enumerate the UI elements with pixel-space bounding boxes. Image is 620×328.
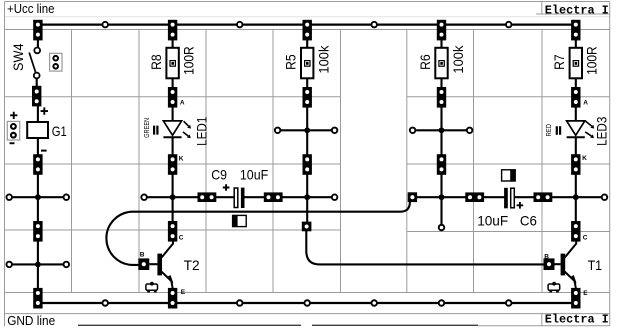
svg-text:K: K	[582, 155, 587, 162]
svg-text:Electra I: Electra I	[545, 3, 609, 17]
LED LED3	[567, 121, 595, 138]
marker C6 body	[502, 170, 516, 181]
wire C9 row y197	[148, 196, 332, 198]
package icon T1	[548, 282, 560, 293]
wire column4 segments	[440, 38, 442, 224]
wire C6 row y197	[417, 196, 601, 198]
pad C9 left link	[198, 192, 217, 202]
node hole right y264	[64, 262, 70, 268]
pads column3	[302, 20, 312, 232]
svg-text:A: A	[180, 100, 185, 107]
marker C9 body	[233, 215, 247, 226]
svg-text:LED3: LED3	[594, 116, 610, 145]
pad T2 base	[138, 258, 149, 270]
svg-text:Electra I: Electra I	[545, 312, 609, 326]
spare pad near G1	[7, 121, 19, 140]
wire T1 base run	[306, 230, 544, 264]
svg-text:R6: R6	[417, 54, 433, 70]
svg-text:GREEN: GREEN	[142, 118, 151, 138]
node hole y130 left of col3	[275, 128, 281, 134]
svg-text:SW4: SW4	[10, 43, 26, 71]
junction col5-y197	[573, 194, 579, 200]
bottom window edge segments	[78, 324, 478, 326]
svg-text:100R: 100R	[181, 46, 197, 75]
pad T1 base	[544, 258, 555, 270]
wire column3 segments	[306, 38, 308, 222]
pad R6 link y197	[408, 192, 417, 202]
polarity - (G1 wire)	[41, 150, 47, 152]
svg-text:B: B	[140, 252, 145, 259]
pad C6 left link	[465, 192, 484, 202]
node hole GND 2	[237, 300, 243, 306]
junction col4-y197	[439, 194, 445, 200]
resistor R8	[166, 48, 178, 79]
polarity + (C6)	[517, 202, 524, 209]
junction col3-y197	[304, 194, 310, 200]
wire +Ucc rail	[38, 24, 576, 26]
node hole left y264	[6, 262, 12, 268]
polarity + (G1 wire)	[41, 107, 48, 114]
junction col4-y130	[439, 127, 445, 133]
pads column2	[168, 20, 177, 309]
svg-text:LED1: LED1	[193, 116, 209, 145]
battery G1	[27, 122, 48, 138]
package icon T2	[146, 282, 158, 293]
polarity + (C9)	[223, 184, 230, 191]
node hole GND 3	[304, 300, 310, 306]
resistor R6	[435, 48, 447, 79]
board frame and grid	[5, 16, 610, 18]
wire GND rail	[38, 302, 576, 304]
svg-text:100k: 100k	[316, 45, 332, 74]
node hole y130 left of col4	[410, 128, 416, 134]
wire node row col1 y197	[13, 196, 63, 198]
junction col3-y130	[304, 127, 310, 133]
node hole y130 right of col3	[332, 128, 338, 134]
capacitor C9	[234, 188, 244, 208]
node hole Ucc 3	[371, 22, 377, 28]
node hole y197 far right	[602, 194, 608, 200]
svg-text:E: E	[583, 290, 588, 297]
node hole y197 left end	[141, 194, 147, 200]
resistor R7	[570, 48, 582, 79]
wire column2 segments	[172, 38, 174, 222]
node hole GND 6	[506, 300, 512, 306]
junction col1-y264	[35, 262, 41, 268]
node hole y197 right end	[332, 194, 338, 200]
resistor R5	[301, 48, 313, 79]
wire node row col3 y130	[281, 129, 331, 131]
polarity + (spare pad)	[10, 112, 17, 119]
svg-text:R8: R8	[148, 54, 164, 70]
pads column4	[437, 20, 446, 175]
pad C9 right link	[264, 192, 283, 202]
polarity - (spare pad)	[10, 142, 15, 144]
pads column1	[32, 20, 43, 309]
node hole Ucc 4	[506, 22, 512, 28]
colour mark (red)	[557, 126, 560, 135]
svg-text:RED: RED	[544, 123, 553, 136]
pad C6 right link	[534, 192, 553, 202]
wire T2 base loop	[106, 202, 410, 265]
svg-text:E: E	[181, 289, 186, 296]
svg-text:R5: R5	[283, 54, 299, 70]
spare pad near SW4	[50, 53, 62, 71]
svg-text:C: C	[179, 234, 184, 241]
junction col2-y197	[170, 194, 176, 200]
transistor T1	[555, 241, 577, 289]
node hole col4 y227	[439, 225, 445, 231]
node hole GND 5	[439, 300, 445, 306]
node hole Ucc 2	[237, 22, 243, 28]
svg-text:100R: 100R	[584, 46, 600, 75]
svg-text:C9: C9	[211, 167, 227, 183]
svg-text:R7: R7	[551, 54, 567, 70]
node hole y130 right of col4	[467, 128, 473, 134]
wire column1 segments	[37, 38, 38, 289]
svg-text:T2: T2	[184, 257, 200, 273]
svg-text:T1: T1	[588, 257, 603, 273]
svg-text:C6: C6	[520, 212, 537, 228]
wire column5 segments	[575, 38, 577, 222]
node hole right y197	[64, 194, 70, 200]
svg-text:GND line: GND line	[7, 314, 55, 328]
svg-text:K: K	[179, 156, 184, 163]
colour mark (green)	[154, 126, 157, 135]
LED LED1	[163, 121, 191, 138]
svg-text:C: C	[583, 234, 588, 241]
svg-text:10uF: 10uF	[240, 167, 268, 183]
node hole Ucc 1	[102, 22, 108, 28]
transistor T2	[149, 241, 173, 289]
svg-text:100k: 100k	[450, 45, 466, 74]
svg-text:+Ucc line: +Ucc line	[7, 2, 55, 16]
title box separators	[541, 2, 543, 327]
junction col1-y197	[35, 194, 41, 200]
node hole GND 4	[371, 300, 377, 306]
svg-text:A: A	[583, 100, 588, 107]
node hole GND 1	[102, 300, 108, 306]
capacitor C6	[504, 188, 514, 209]
pads column5	[571, 20, 580, 309]
svg-text:G1: G1	[52, 123, 67, 139]
switch SW4	[29, 48, 40, 79]
wire node row col1 y264	[13, 263, 63, 265]
svg-text:10uF: 10uF	[477, 212, 508, 228]
wire node row col4 y130	[416, 129, 466, 131]
node hole left y197	[6, 194, 12, 200]
